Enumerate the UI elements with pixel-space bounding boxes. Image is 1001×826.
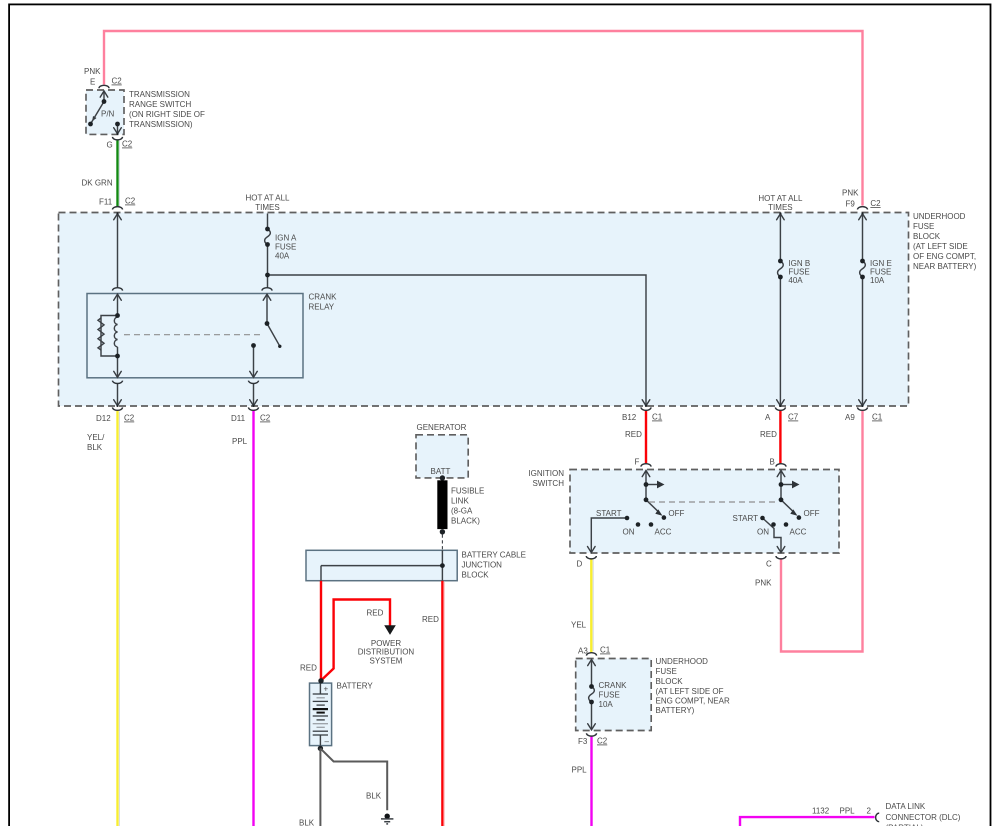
- svg-text:C2: C2: [870, 199, 881, 208]
- svg-text:START: START: [733, 514, 759, 523]
- svg-text:ENG COMPT, NEAR: ENG COMPT, NEAR: [656, 697, 730, 706]
- svg-text:RELAY: RELAY: [309, 303, 335, 312]
- svg-text:CONNECTOR (DLC): CONNECTOR (DLC): [886, 813, 961, 822]
- svg-text:40A: 40A: [275, 252, 290, 261]
- svg-text:YEL/: YEL/: [87, 433, 105, 442]
- svg-text:RED: RED: [367, 609, 384, 618]
- svg-text:BLK: BLK: [366, 792, 382, 801]
- svg-text:PNK: PNK: [755, 579, 772, 588]
- svg-text:IGNITION: IGNITION: [528, 469, 564, 478]
- svg-text:10A: 10A: [870, 276, 885, 285]
- svg-text:FUSE: FUSE: [913, 222, 934, 231]
- svg-text:GENERATOR: GENERATOR: [417, 423, 467, 432]
- svg-text:PNK: PNK: [84, 67, 101, 76]
- svg-text:ACC: ACC: [790, 528, 807, 537]
- svg-text:E: E: [90, 78, 95, 87]
- svg-text:NEAR BATTERY): NEAR BATTERY): [913, 262, 977, 271]
- svg-text:RANGE SWITCH: RANGE SWITCH: [129, 100, 191, 109]
- svg-text:F: F: [635, 458, 640, 467]
- svg-text:BLK: BLK: [87, 443, 103, 452]
- svg-text:RED: RED: [300, 664, 317, 673]
- svg-text:FUSE: FUSE: [656, 667, 677, 676]
- svg-text:B12: B12: [622, 413, 637, 422]
- svg-text:–: –: [325, 737, 330, 746]
- svg-text:C1: C1: [600, 646, 611, 655]
- svg-text:C2: C2: [122, 140, 133, 149]
- svg-text:B: B: [770, 458, 775, 467]
- svg-text:BATTERY CABLE: BATTERY CABLE: [462, 551, 526, 560]
- svg-text:C2: C2: [112, 77, 123, 86]
- svg-text:C1: C1: [652, 413, 663, 422]
- svg-text:POWER: POWER: [371, 639, 401, 648]
- svg-text:TRANSMISSION): TRANSMISSION): [129, 120, 193, 129]
- svg-text:START: START: [596, 509, 622, 518]
- svg-text:IGN A: IGN A: [275, 234, 297, 243]
- svg-text:BATTERY: BATTERY: [337, 682, 374, 691]
- svg-text:BATT: BATT: [431, 467, 451, 476]
- svg-text:RED: RED: [625, 430, 642, 439]
- svg-text:DK GRN: DK GRN: [82, 179, 113, 188]
- svg-text:UNDERHOOD: UNDERHOOD: [656, 657, 709, 666]
- svg-text:(8-GA: (8-GA: [451, 507, 473, 516]
- svg-text:F11: F11: [99, 198, 113, 207]
- svg-text:A: A: [765, 413, 771, 422]
- svg-text:C2: C2: [125, 197, 136, 206]
- svg-text:FUSE: FUSE: [599, 691, 620, 700]
- svg-text:ACC: ACC: [655, 528, 672, 537]
- svg-text:1132: 1132: [812, 807, 830, 816]
- svg-text:RED: RED: [422, 615, 439, 624]
- svg-text:PPL: PPL: [232, 437, 248, 446]
- svg-text:P/N: P/N: [101, 110, 115, 119]
- svg-text:(AT LEFT SIDE OF: (AT LEFT SIDE OF: [656, 687, 724, 696]
- svg-text:F9: F9: [846, 200, 856, 209]
- svg-text:PPL: PPL: [572, 766, 588, 775]
- svg-text:LINK: LINK: [451, 497, 469, 506]
- svg-text:40A: 40A: [788, 276, 803, 285]
- svg-text:2: 2: [867, 807, 872, 816]
- svg-text:D12: D12: [96, 414, 111, 423]
- svg-text:RED: RED: [760, 430, 777, 439]
- svg-text:BLOCK: BLOCK: [913, 232, 941, 241]
- svg-text:OFF: OFF: [804, 509, 820, 518]
- svg-text:C7: C7: [788, 413, 799, 422]
- svg-text:DISTRIBUTION: DISTRIBUTION: [358, 648, 415, 657]
- svg-text:FUSIBLE: FUSIBLE: [451, 487, 484, 496]
- svg-text:HOT AT ALL: HOT AT ALL: [758, 194, 803, 203]
- svg-text:C1: C1: [872, 413, 883, 422]
- svg-text:DATA LINK: DATA LINK: [886, 802, 926, 811]
- svg-text:BATTERY): BATTERY): [656, 706, 695, 715]
- svg-text:G: G: [107, 141, 113, 150]
- svg-text:BLOCK: BLOCK: [462, 571, 490, 580]
- svg-text:C2: C2: [260, 414, 271, 423]
- svg-text:C: C: [766, 560, 772, 569]
- svg-text:TIMES: TIMES: [768, 203, 792, 212]
- svg-text:ON: ON: [623, 528, 635, 537]
- svg-text:OF ENG COMPT,: OF ENG COMPT,: [913, 252, 976, 261]
- svg-text:D: D: [577, 560, 583, 569]
- svg-text:(AT LEFT SIDE: (AT LEFT SIDE: [913, 242, 968, 251]
- svg-text:A3: A3: [578, 647, 588, 656]
- svg-text:BLK: BLK: [299, 819, 315, 826]
- svg-text:YEL: YEL: [571, 621, 587, 630]
- svg-text:PNK: PNK: [842, 189, 859, 198]
- svg-text:C2: C2: [124, 414, 135, 423]
- svg-text:TIMES: TIMES: [255, 203, 279, 212]
- svg-text:C2: C2: [597, 737, 608, 746]
- svg-text:+: +: [324, 685, 329, 694]
- svg-text:JUNCTION: JUNCTION: [462, 561, 503, 570]
- svg-text:F3: F3: [578, 737, 588, 746]
- svg-text:(ON RIGHT SIDE OF: (ON RIGHT SIDE OF: [129, 110, 205, 119]
- svg-text:PPL: PPL: [840, 807, 856, 816]
- svg-text:TRANSMISSION: TRANSMISSION: [129, 90, 190, 99]
- svg-text:D11: D11: [231, 414, 246, 423]
- svg-text:A9: A9: [845, 413, 855, 422]
- svg-text:FUSE: FUSE: [275, 243, 296, 252]
- svg-text:10A: 10A: [599, 700, 614, 709]
- svg-text:BLOCK: BLOCK: [656, 677, 684, 686]
- svg-text:UNDERHOOD: UNDERHOOD: [913, 212, 966, 221]
- svg-text:BLACK): BLACK): [451, 517, 480, 526]
- svg-text:HOT AT ALL: HOT AT ALL: [245, 194, 290, 203]
- svg-text:SYSTEM: SYSTEM: [370, 656, 403, 665]
- svg-text:OFF: OFF: [668, 509, 684, 518]
- svg-text:ON: ON: [757, 528, 769, 537]
- svg-text:CRANK: CRANK: [599, 681, 628, 690]
- svg-text:SWITCH: SWITCH: [532, 479, 564, 488]
- svg-text:CRANK: CRANK: [309, 293, 338, 302]
